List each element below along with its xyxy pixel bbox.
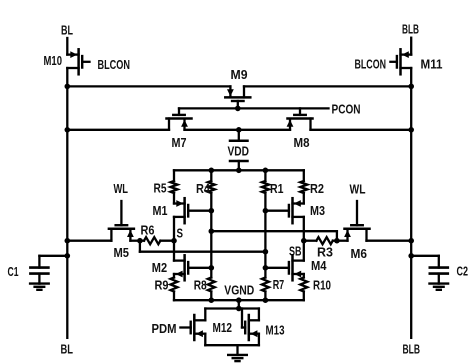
svg-text:M6: M6 (351, 246, 368, 261)
svg-text:M1: M1 (153, 203, 168, 218)
svg-text:PDM: PDM (152, 321, 177, 336)
svg-text:R9: R9 (155, 278, 169, 293)
svg-text:R8: R8 (194, 278, 207, 293)
svg-text:S: S (177, 226, 184, 241)
svg-text:M7: M7 (172, 135, 187, 150)
svg-text:M11: M11 (421, 57, 443, 72)
svg-text:WL: WL (350, 182, 366, 197)
svg-text:BL: BL (61, 342, 74, 357)
svg-text:M8: M8 (294, 135, 310, 150)
svg-text:M5: M5 (114, 245, 130, 260)
svg-text:BLCON: BLCON (98, 57, 131, 72)
svg-text:R10: R10 (313, 277, 331, 292)
svg-text:PCON: PCON (332, 102, 361, 117)
svg-text:BLB: BLB (403, 342, 421, 357)
svg-text:M3: M3 (310, 203, 325, 218)
svg-text:R5: R5 (154, 181, 167, 196)
svg-text:C1: C1 (8, 264, 19, 279)
svg-text:M12: M12 (213, 320, 233, 335)
svg-text:M13: M13 (266, 323, 285, 338)
svg-text:M10: M10 (44, 53, 63, 68)
svg-text:BLB: BLB (402, 22, 419, 37)
svg-text:M2: M2 (152, 260, 167, 275)
svg-text:R6: R6 (141, 223, 155, 238)
svg-text:BL: BL (61, 23, 73, 38)
svg-text:BLCON: BLCON (355, 57, 387, 72)
svg-text:WL: WL (114, 181, 129, 196)
svg-text:C2: C2 (457, 264, 469, 279)
svg-text:SB: SB (289, 244, 302, 259)
svg-text:R4: R4 (196, 181, 211, 196)
svg-text:M9: M9 (231, 67, 248, 82)
svg-text:R2: R2 (310, 181, 324, 196)
svg-text:R7: R7 (273, 277, 285, 292)
svg-text:VGND: VGND (224, 282, 254, 297)
svg-text:R1: R1 (270, 181, 284, 196)
svg-text:M4: M4 (311, 258, 327, 273)
svg-text:VDD: VDD (228, 144, 250, 159)
